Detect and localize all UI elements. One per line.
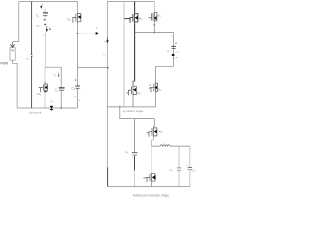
wire gate bus (b) (123, 2, 125, 107)
wire loop right vertical lower (155, 93, 157, 107)
transistor Mb2 (b) (143, 173, 155, 182)
wire bottom rail (a) (17, 107, 77, 109)
tick x44 y35 (44, 34, 45, 36)
wire M3 source down (153, 22, 155, 33)
wire top rail (a) (19, 1, 78, 3)
label minus C3 (75, 95, 77, 97)
transistor M3 source blob (44, 91, 46, 93)
transistor M1 body arrow (78, 15, 81, 19)
transistor M3 (a) (39, 82, 48, 93)
wire inductor right segment (170, 145, 190, 147)
wire below C1b (178, 171, 180, 187)
label plus (175, 42, 177, 44)
wire column x45 mid faint (44, 32, 46, 67)
junction dot i2 (49, 29, 51, 31)
transistor Mmid (b) (126, 85, 136, 96)
svg-text:R: R (168, 49, 170, 53)
wire link from (a) to (b) (78, 67, 108, 69)
wire below source to bottom rail (13, 60, 18, 108)
junction tick x120 (119, 106, 121, 108)
wire top rail (b) (107, 1, 154, 3)
label minus Cout (176, 56, 177, 58)
wire port b (78, 33, 96, 35)
diode D1 on rail (50, 106, 53, 109)
label plus C3 (75, 79, 77, 81)
transistor M3 body arrow (154, 16, 157, 20)
capacitor C2b plates (188, 166, 192, 168)
transistor Mmid body arrow (133, 88, 136, 92)
junction node b tick (76, 33, 78, 35)
transistor Mloop body arrow (154, 86, 157, 90)
capacitor C3 plates (75, 85, 80, 87)
wire Mb1 source to inductor wire (152, 137, 154, 146)
source V1 PWM box (10, 48, 15, 61)
tick below M3 (153, 24, 155, 26)
current arrow i1 top (41, 5, 43, 7)
wire dropper x120 (120, 107, 155, 119)
svg-text:(a) circuit: (a) circuit (29, 111, 42, 115)
transistor M1 (a) (73, 12, 81, 23)
wire M3 drain (153, 2, 155, 12)
wire inductor left segment (152, 145, 160, 147)
capacitor C1b lower plate (43, 19, 46, 21)
transistor M1 drain wire (77, 2, 79, 13)
wire below Cb dark (134, 155, 136, 170)
wire gate bus column (a) dark upper (31, 2, 33, 55)
wire Cb column (134, 119, 136, 153)
inductor L1 (160, 145, 170, 146)
wire mid rail (b) (107, 106, 155, 108)
capacitor Cb plates (132, 152, 138, 154)
transistor Mb1 body arrow (154, 130, 157, 134)
wire stub above C1 (44, 10, 46, 13)
transistor Mb2 body arrow (152, 175, 156, 180)
capacitor Cg plates (31, 54, 33, 56)
current arrow iin (b) (105, 41, 107, 42)
svg-text:Advanced booster stage: Advanced booster stage (133, 193, 170, 197)
wire loop bottom (156, 65, 174, 67)
wire below C2b (189, 170, 191, 187)
current arrow i2 (46, 26, 48, 30)
wire right edge (b) (189, 146, 191, 167)
wire Mb2 drain faint (151, 146, 153, 173)
junction dot from (a) (107, 67, 109, 69)
wire below Cb light to rail (134, 171, 136, 187)
wire M1 source down (77, 23, 79, 33)
wire bottom rail (b) (108, 186, 190, 188)
wire loop right vertical upper (155, 66, 157, 82)
wire output cap column (173, 33, 175, 67)
arrow v2 down (58, 73, 60, 77)
transistor Mloop (b) (149, 82, 158, 93)
capacitor C1 plates (43, 12, 48, 14)
wire column x45 to M3 drain (44, 67, 46, 81)
wire left edge upper (a) (13, 2, 19, 42)
wire left edge (b) dark lower (107, 168, 109, 187)
wire M2 drain dark (134, 2, 136, 13)
tick below dot (172, 57, 174, 59)
transistor Mb1 (b) (147, 127, 157, 138)
transistor M3 (b) (148, 12, 157, 22)
capacitor Cout plates (171, 45, 176, 47)
wire rail2 to output cap (135, 32, 174, 34)
transistor M3 body arrow (45, 85, 48, 89)
wire Mmid source to rail (133, 96, 135, 107)
port arrow b (96, 32, 99, 35)
wire jog to Mmid (133, 81, 135, 85)
label minus (37, 25, 40, 27)
wire branch y67 to x61 (45, 67, 61, 87)
wire M2 column dark mid (134, 33, 136, 82)
transistor M2 (b) (124, 12, 138, 23)
wire C1b branch (178, 146, 180, 167)
junction dot below Cout (172, 54, 175, 56)
capacitor C1b plates (177, 167, 181, 169)
junction dot C2-rail (61, 107, 62, 108)
wire Mb1 drain (153, 119, 155, 127)
wire below C3 to rail (77, 89, 79, 108)
wire M3 source to rail (44, 92, 46, 108)
svg-text:PWM: PWM (0, 61, 8, 65)
junction dot node1 (44, 24, 46, 25)
transistor M2 body arrow (135, 16, 138, 20)
junction dot M3-rail2 (154, 32, 156, 34)
wire M2 source dark to rail2 (134, 23, 136, 32)
wire gate bus column (a) dark lower (31, 57, 33, 108)
wire below C2 to rail (60, 91, 62, 109)
label plus C2b (186, 164, 187, 166)
capacitor C2 plates (59, 87, 65, 89)
wire Mb2 source to rail (151, 182, 153, 187)
wire left edge (b) (106, 2, 108, 168)
svg-text:a) switch stage: a) switch stage (123, 109, 144, 113)
source V1 input arrow (12, 42, 14, 47)
wire M1 source to C3 (77, 34, 79, 86)
